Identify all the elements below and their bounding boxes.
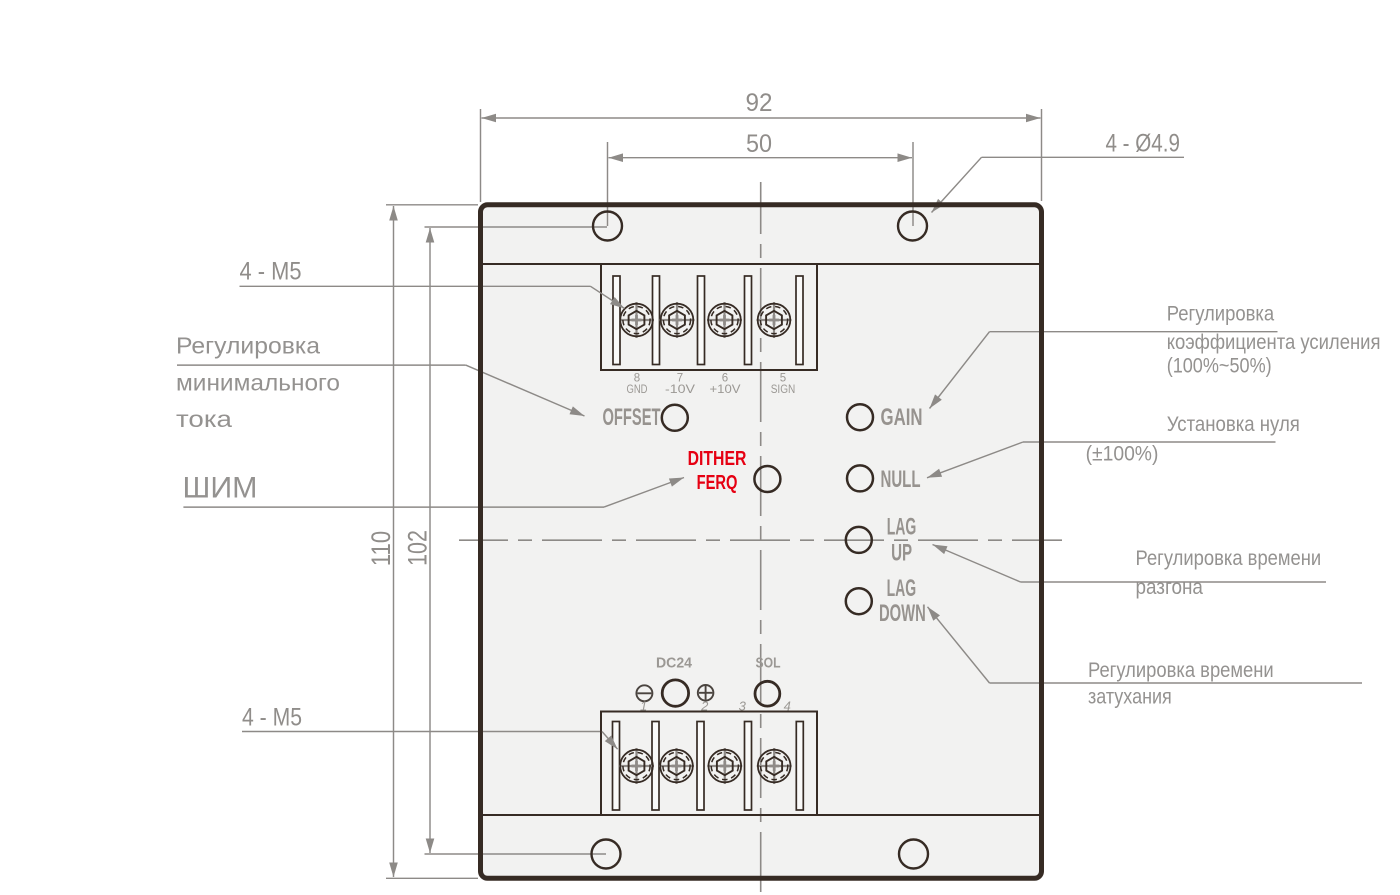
svg-text:102: 102 — [403, 530, 433, 566]
svg-text:GND: GND — [627, 384, 648, 396]
svg-text:Регулировка времени: Регулировка времени — [1136, 547, 1322, 570]
svg-text:ШИМ: ШИМ — [183, 472, 258, 505]
svg-text:4 - M5: 4 - M5 — [242, 704, 302, 732]
svg-text:разгона: разгона — [1136, 576, 1204, 599]
svg-text:Регулировка: Регулировка — [1167, 303, 1275, 326]
svg-text:2: 2 — [700, 699, 709, 714]
svg-text:DITHER: DITHER — [688, 448, 747, 470]
svg-text:GAIN: GAIN — [881, 404, 923, 431]
svg-text:(100%~50%): (100%~50%) — [1167, 355, 1272, 378]
svg-text:1: 1 — [640, 699, 647, 714]
svg-text:FERQ: FERQ — [697, 472, 738, 494]
svg-text:3: 3 — [739, 699, 747, 714]
svg-text:OFFSET: OFFSET — [603, 404, 661, 431]
svg-text:DOWN: DOWN — [879, 600, 926, 627]
svg-text:Регулировка: Регулировка — [176, 333, 320, 359]
svg-text:минимального: минимального — [176, 370, 340, 396]
svg-text:NULL: NULL — [881, 466, 921, 493]
svg-text:8: 8 — [634, 373, 640, 385]
svg-text:тока: тока — [176, 406, 232, 432]
svg-text:+10V: +10V — [710, 384, 741, 396]
svg-text:4: 4 — [784, 699, 791, 714]
svg-text:DC24: DC24 — [656, 656, 692, 672]
svg-text:4 - Ø4.9: 4 - Ø4.9 — [1106, 130, 1180, 158]
svg-text:затухания: затухания — [1088, 685, 1172, 708]
svg-text:LAG: LAG — [887, 575, 917, 602]
svg-text:-10V: -10V — [665, 384, 695, 396]
svg-text:5: 5 — [780, 373, 786, 385]
svg-text:Установка нуля: Установка нуля — [1167, 413, 1300, 436]
svg-text:UP: UP — [891, 539, 912, 566]
svg-text:SIGN: SIGN — [771, 384, 796, 396]
svg-text:6: 6 — [722, 373, 728, 385]
svg-text:4 - M5: 4 - M5 — [240, 258, 302, 286]
svg-text:SOL: SOL — [756, 656, 781, 672]
svg-text:(±100%): (±100%) — [1086, 442, 1159, 465]
svg-text:коэффициента усиления: коэффициента усиления — [1167, 331, 1381, 354]
svg-text:92: 92 — [746, 89, 773, 117]
svg-text:Регулировка времени: Регулировка времени — [1088, 659, 1274, 682]
svg-text:7: 7 — [677, 373, 683, 385]
svg-text:LAG: LAG — [887, 514, 917, 541]
svg-text:50: 50 — [746, 130, 772, 158]
svg-text:110: 110 — [366, 531, 396, 566]
